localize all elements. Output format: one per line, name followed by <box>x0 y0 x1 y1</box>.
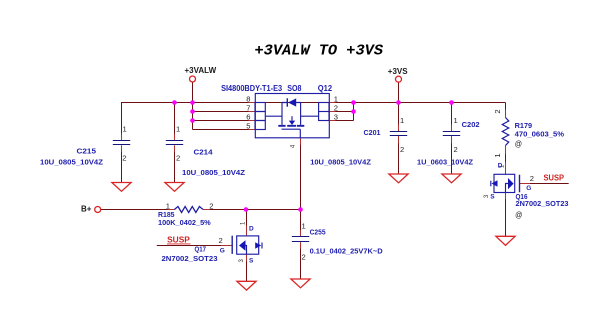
svg-text:0.1U_0402_25V7K~D: 0.1U_0402_25V7K~D <box>310 247 384 256</box>
svg-text:1: 1 <box>493 153 502 157</box>
svg-text:D: D <box>498 163 503 170</box>
svg-text:2N7002_SOT23: 2N7002_SOT23 <box>516 199 569 208</box>
svg-text:2N7002_SOT23: 2N7002_SOT23 <box>162 254 218 263</box>
svg-text:Q12: Q12 <box>318 84 333 93</box>
svg-text:1: 1 <box>176 124 180 133</box>
svg-text:SI4800BDY-T1-E3: SI4800BDY-T1-E3 <box>221 84 282 93</box>
svg-text:470_0603_5%: 470_0603_5% <box>515 129 565 138</box>
svg-text:C214: C214 <box>194 147 214 156</box>
svg-text:SUSP: SUSP <box>167 236 190 245</box>
svg-text:2: 2 <box>176 153 180 162</box>
svg-text:6: 6 <box>246 112 250 121</box>
svg-text:C255: C255 <box>310 228 326 237</box>
svg-text:+3VALW TO +3VS: +3VALW TO +3VS <box>255 44 384 60</box>
svg-text:8: 8 <box>246 94 250 103</box>
svg-text:@: @ <box>515 139 522 148</box>
svg-text:1: 1 <box>400 116 404 125</box>
svg-text:10U_0805_10V4Z: 10U_0805_10V4Z <box>40 157 103 166</box>
svg-text:100K_0402_5%: 100K_0402_5% <box>158 218 211 227</box>
svg-text:Q17: Q17 <box>195 245 207 254</box>
svg-text:G: G <box>526 185 531 192</box>
svg-text:2: 2 <box>400 145 404 154</box>
svg-text:5: 5 <box>246 121 250 130</box>
svg-text:SUSP: SUSP <box>544 174 565 183</box>
svg-text:1: 1 <box>454 116 458 125</box>
svg-text:3: 3 <box>334 112 338 121</box>
svg-text:S: S <box>249 257 254 264</box>
svg-text:2: 2 <box>530 174 534 183</box>
svg-text:2: 2 <box>334 103 338 112</box>
svg-text:1U_0603_10V4Z: 1U_0603_10V4Z <box>417 157 473 166</box>
svg-text:2: 2 <box>493 109 502 113</box>
svg-text:S: S <box>490 194 495 201</box>
svg-text:B+: B+ <box>81 204 92 213</box>
svg-text:2: 2 <box>219 236 223 245</box>
svg-text:10U_0805_10V4Z: 10U_0805_10V4Z <box>310 157 371 166</box>
svg-text:C201: C201 <box>364 128 381 137</box>
svg-text:1: 1 <box>123 124 127 133</box>
svg-text:2: 2 <box>122 153 126 162</box>
svg-text:7: 7 <box>246 103 250 112</box>
svg-text:SO8: SO8 <box>287 84 302 93</box>
svg-text:2: 2 <box>209 201 213 210</box>
svg-text:10U_0805_10V4Z: 10U_0805_10V4Z <box>182 168 245 177</box>
svg-text:+3VS: +3VS <box>388 67 408 76</box>
svg-text:2: 2 <box>302 253 306 262</box>
svg-text:C202: C202 <box>462 120 480 129</box>
svg-text:G: G <box>220 248 225 255</box>
svg-text:C215: C215 <box>77 147 97 156</box>
svg-text:D: D <box>249 226 254 233</box>
svg-text:2: 2 <box>454 145 458 154</box>
svg-text:1: 1 <box>302 222 306 231</box>
svg-text:@: @ <box>515 210 522 219</box>
svg-text:1: 1 <box>334 94 338 103</box>
svg-text:+3VALW: +3VALW <box>185 66 217 75</box>
